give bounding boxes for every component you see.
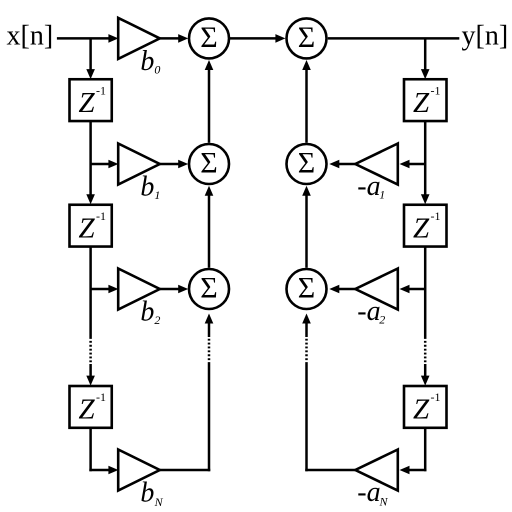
svg-text:Σ: Σ — [298, 272, 315, 305]
svg-text:Z: Z — [413, 394, 430, 426]
svg-text:N: N — [379, 495, 389, 509]
svg-text:Σ: Σ — [200, 147, 217, 180]
svg-text:b: b — [140, 297, 154, 328]
svg-text:Z: Z — [79, 87, 96, 119]
svg-text:-a: -a — [357, 296, 380, 327]
svg-text:-a: -a — [357, 477, 380, 508]
svg-text:x[n]: x[n] — [7, 21, 54, 52]
svg-text:Z: Z — [413, 87, 430, 119]
svg-text:1: 1 — [154, 188, 160, 202]
svg-text:-1: -1 — [96, 209, 106, 223]
svg-text:Σ: Σ — [298, 21, 315, 54]
svg-text:b: b — [140, 46, 154, 77]
svg-text:b: b — [140, 172, 154, 203]
svg-text:-1: -1 — [431, 390, 441, 404]
svg-text:Σ: Σ — [298, 147, 315, 180]
svg-text:Z: Z — [79, 394, 96, 426]
svg-text:b: b — [140, 478, 154, 509]
svg-text:-1: -1 — [431, 209, 441, 223]
svg-text:-1: -1 — [96, 83, 106, 97]
svg-text:Z: Z — [413, 212, 430, 244]
svg-text:1: 1 — [379, 188, 385, 202]
svg-text:Σ: Σ — [200, 272, 217, 305]
svg-text:-1: -1 — [96, 390, 106, 404]
svg-text:Z: Z — [79, 212, 96, 244]
svg-text:N: N — [154, 495, 164, 509]
svg-text:Σ: Σ — [200, 21, 217, 54]
svg-text:-1: -1 — [431, 83, 441, 97]
svg-text:y[n]: y[n] — [462, 21, 509, 52]
svg-text:0: 0 — [154, 63, 160, 77]
svg-text:2: 2 — [379, 313, 385, 327]
svg-text:2: 2 — [154, 313, 160, 327]
svg-text:-a: -a — [357, 171, 380, 202]
